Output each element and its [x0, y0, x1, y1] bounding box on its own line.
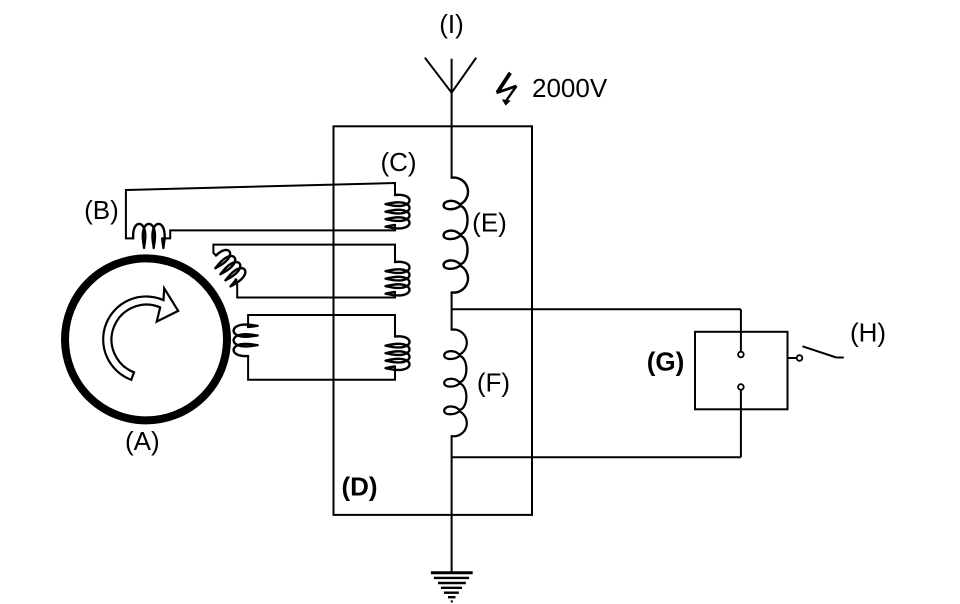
svg-text:(I): (I)	[439, 9, 464, 39]
inductor F	[444, 330, 467, 437]
coil C3 (primary winding 3)	[386, 336, 410, 370]
svg-text:(A): (A)	[125, 426, 160, 456]
coil C1 (primary winding 1)	[386, 195, 410, 229]
wire: bottom return	[452, 456, 741, 458]
switch H handle	[836, 357, 844, 359]
stator loop 3 wire lower	[248, 356, 395, 380]
switch H lead	[788, 357, 797, 359]
rotation arrow	[103, 288, 178, 380]
stator loop 1 wire lower	[162, 225, 395, 238]
wire: down into box G	[740, 309, 742, 351]
rotor circle A	[65, 258, 227, 420]
stator loop 1 wire upper	[126, 183, 395, 238]
switch H contact	[797, 355, 803, 361]
coil B3 (stator winding 3)	[234, 325, 258, 357]
inductor E	[444, 178, 468, 293]
stator loop 3 wire upper	[248, 315, 395, 337]
stator loop 2 wire lower	[235, 279, 395, 298]
wire: E/F junction to spark gap	[452, 308, 741, 310]
svg-text:2000V: 2000V	[532, 73, 608, 103]
spark gap electrode lower	[738, 384, 744, 390]
switch H blade	[803, 346, 837, 357]
box G (spark gap)	[695, 332, 788, 410]
stator loop 2 wire upper	[213, 245, 395, 262]
lightning bolt high voltage symbol	[497, 73, 517, 106]
box D (transformer frame)	[334, 126, 533, 515]
ground symbol	[431, 573, 473, 602]
svg-text:(B): (B)	[84, 195, 119, 225]
svg-text:(E): (E)	[472, 208, 507, 238]
svg-text:(H): (H)	[850, 318, 886, 348]
svg-text:(F): (F)	[477, 368, 510, 398]
svg-text:(D): (D)	[341, 472, 377, 502]
antenna	[425, 58, 476, 178]
wire F to ground	[451, 436, 453, 572]
coil B2 (stator winding 2, diagonal)	[209, 247, 248, 287]
coil B (stator winding 1)	[133, 224, 165, 248]
coil C2 (primary winding 2)	[386, 262, 410, 296]
spark gap electrode upper	[738, 352, 744, 358]
wire: spark gap lower lead	[740, 390, 742, 457]
svg-text:(C): (C)	[380, 147, 416, 177]
wire between E and F	[451, 292, 453, 329]
svg-text:(G): (G)	[647, 347, 685, 377]
